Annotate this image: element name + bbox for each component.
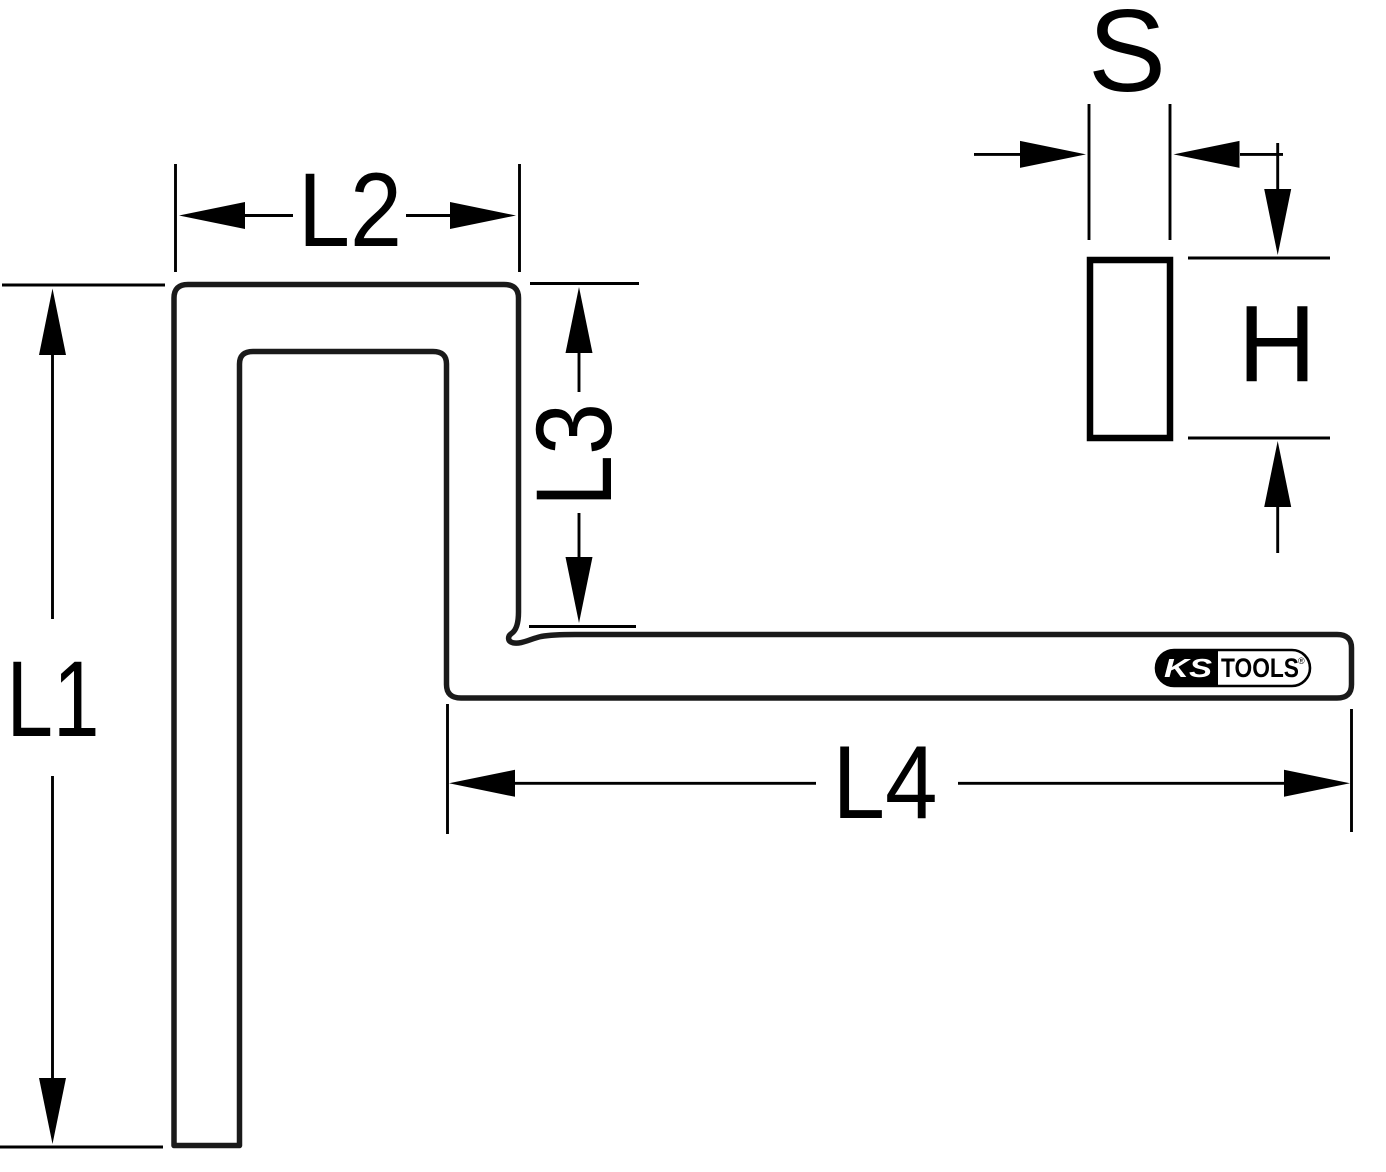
- L3 bottom extension line: [529, 625, 636, 628]
- dimension L3: [529, 284, 639, 627]
- L4 right extension line: [1350, 709, 1353, 832]
- cross-section rectangle: [1090, 260, 1170, 438]
- L2 left extension line: [174, 164, 177, 272]
- H bottom extension line: [1188, 437, 1330, 440]
- L3 top extension line: [530, 282, 639, 285]
- L2 arrowhead right: [450, 202, 516, 229]
- L1 dimension line upper segment: [51, 352, 54, 619]
- dimension S: [974, 104, 1283, 240]
- L4 left extension line: [446, 704, 449, 834]
- S left arrow line: [974, 153, 1020, 156]
- svg-text:®: ®: [1298, 656, 1305, 666]
- L4 arrowhead left: [449, 770, 515, 797]
- L1 arrowhead top: [39, 289, 66, 356]
- dimension L4: [448, 704, 1352, 834]
- L3 arrowhead top: [566, 287, 593, 353]
- L1 arrowhead bottom: [39, 1078, 66, 1144]
- L3 dimension line lower segment: [578, 513, 581, 559]
- L3 dimension line upper segment: [578, 352, 581, 392]
- H upper dimension line: [1276, 143, 1279, 190]
- L4 dimension line right segment: [958, 782, 1286, 785]
- L2 dimension line right segment: [406, 214, 452, 217]
- S arrowhead left: [1020, 141, 1086, 168]
- L1 dimension line lower segment: [51, 776, 54, 1081]
- S right arrow line: [1240, 153, 1283, 156]
- svg-text:L4: L4: [833, 725, 938, 841]
- S arrowhead right: [1174, 141, 1240, 168]
- H arrowhead top (pointing down): [1264, 189, 1291, 255]
- dimension L1: [0, 285, 165, 1147]
- svg-text:TOOLS: TOOLS: [1221, 653, 1299, 683]
- H top extension line: [1188, 257, 1330, 260]
- H arrowhead bottom (pointing up): [1264, 441, 1291, 507]
- logo pill outline: [1156, 650, 1310, 686]
- svg-text:L1: L1: [7, 638, 100, 759]
- tool body outline (Z-bent sealing wrench): [174, 285, 1352, 1146]
- H lower dimension line: [1276, 506, 1279, 553]
- dimension H: [1188, 143, 1330, 553]
- S right extension line: [1169, 104, 1172, 240]
- dimension L2: [176, 164, 520, 272]
- L4 arrowhead right: [1284, 770, 1350, 797]
- logo left black half: [1156, 650, 1218, 686]
- svg-text:L2: L2: [298, 152, 402, 269]
- L4 dimension line left segment: [513, 782, 816, 785]
- svg-text:H: H: [1238, 283, 1317, 405]
- KS Tools logo: [1156, 650, 1310, 686]
- L1 top extension line: [2, 284, 165, 287]
- S left extension line: [1088, 104, 1091, 240]
- L2 dimension line left segment: [243, 214, 293, 217]
- svg-text:L3: L3: [513, 403, 634, 507]
- L2 arrowhead left: [179, 202, 245, 229]
- L1 bottom extension line: [0, 1146, 163, 1149]
- svg-text:KS: KS: [1164, 653, 1213, 683]
- L3 arrowhead bottom: [566, 557, 593, 623]
- svg-text:S: S: [1088, 0, 1166, 116]
- L2 right extension line: [518, 164, 521, 272]
